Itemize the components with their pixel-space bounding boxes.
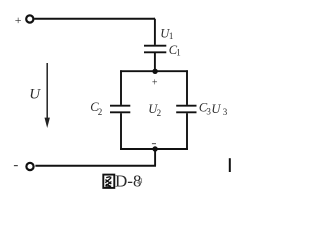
svg-text:1: 1: [169, 31, 174, 41]
wire top vertical to C1: [154, 19, 155, 45]
svg-text:1: 1: [176, 48, 181, 58]
wire box right upper: [186, 70, 188, 105]
node top junction: [152, 69, 157, 74]
svg-text:U: U: [29, 87, 41, 103]
terminal top: [26, 15, 33, 22]
wire bottom vertical: [154, 149, 156, 166]
terminal minus label: [14, 165, 18, 167]
capacitor C1: [144, 46, 166, 53]
svg-text:+: +: [152, 78, 158, 89]
wire C1 to node: [154, 52, 156, 71]
terminal bottom: [26, 163, 33, 170]
svg-text:D-8: D-8: [115, 171, 141, 190]
caption return mark: [138, 178, 142, 184]
artifact right edge dash: [229, 158, 231, 172]
svg-text:3: 3: [223, 107, 228, 117]
wire top horizontal: [34, 18, 155, 20]
svg-text:U: U: [211, 102, 221, 116]
svg-text:2: 2: [98, 107, 103, 117]
node bottom junction: [152, 146, 157, 151]
svg-text:+: +: [15, 13, 22, 27]
wire box top: [120, 70, 188, 72]
label minus polarity U2: [152, 143, 156, 145]
capacitor C2: [110, 106, 130, 113]
wire box left upper: [120, 70, 122, 105]
wire box right lower: [186, 113, 188, 150]
svg-text:2: 2: [157, 108, 162, 118]
wire bottom horizontal: [35, 165, 156, 167]
wire box bottom: [120, 148, 188, 150]
wire box left lower: [120, 113, 122, 150]
capacitor C3: [176, 106, 196, 113]
caption glyph 图: [103, 175, 114, 188]
source voltage arrow U: [46, 63, 48, 119]
